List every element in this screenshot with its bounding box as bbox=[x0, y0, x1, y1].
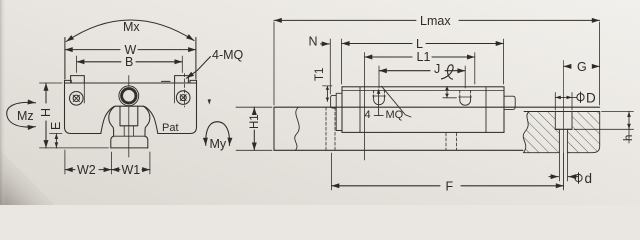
rail left end bbox=[273, 107, 275, 150]
moment arc Mx bbox=[66, 20, 194, 42]
rail groove contour left bbox=[109, 106, 115, 136]
dim W extension lines bbox=[65, 38, 196, 80]
dim F bbox=[332, 185, 564, 187]
rail hidden step line bbox=[114, 135, 145, 137]
short lip segment right of centre on top edge bbox=[162, 80, 171, 82]
svg-text:T1: T1 bbox=[314, 68, 326, 81]
section hatching right of hole bbox=[567, 112, 599, 153]
left hole counterbore wall line bbox=[83, 83, 85, 103]
svg-text:W2: W2 bbox=[77, 163, 96, 177]
dim W1 bbox=[111, 169, 149, 171]
dim phiD bbox=[555, 96, 572, 98]
grease hole centreline above ring bbox=[128, 76, 130, 87]
right hole counterbore wall line bbox=[174, 83, 176, 103]
depth tick bbox=[443, 97, 457, 99]
T1 tick bbox=[323, 85, 333, 87]
rail neck inner verticals bbox=[124, 126, 133, 136]
dim G bbox=[564, 65, 600, 67]
right view labels bbox=[249, 14, 635, 194]
hidden rail hole under block (dashed) bbox=[446, 133, 457, 150]
counterbore bottom line bbox=[555, 128, 572, 130]
dim L1 extension right bbox=[474, 53, 476, 85]
svg-text:h: h bbox=[623, 135, 635, 141]
svg-text:W1: W1 bbox=[122, 163, 141, 177]
svg-text:J: J bbox=[434, 62, 440, 76]
rail groove contour right bbox=[144, 106, 150, 136]
dim H1 bbox=[253, 107, 255, 150]
dim E bbox=[55, 134, 57, 148]
dim W2/W1 extension lines bbox=[65, 150, 150, 174]
svg-text:Mz: Mz bbox=[17, 109, 34, 123]
dim h bbox=[628, 112, 630, 130]
block top chamfer line bbox=[342, 89, 504, 91]
rail lower side right bbox=[145, 136, 148, 148]
moment arc Mz bbox=[7, 102, 36, 127]
svg-text:Mx: Mx bbox=[123, 20, 140, 34]
dim L1 extension left (long) bbox=[364, 53, 366, 161]
left view labels bbox=[17, 20, 244, 177]
thread cup right bbox=[460, 98, 471, 106]
section top edge line bbox=[524, 111, 599, 113]
svg-text:L1: L1 bbox=[417, 50, 431, 64]
screw hole right (circle with core) bbox=[176, 91, 190, 105]
diagonal leader line bbox=[382, 86, 412, 117]
dim Lmax extension left bbox=[273, 22, 275, 105]
section hatching left of hole bbox=[523, 112, 559, 153]
svg-text:L: L bbox=[416, 37, 423, 51]
dim L extension right bbox=[503, 39, 505, 84]
rail profile top shelf bbox=[115, 105, 143, 107]
svg-text:My: My bbox=[210, 137, 227, 151]
leader 4-MQ bbox=[186, 57, 210, 79]
rail neck rectangle bbox=[120, 106, 138, 126]
svg-text:G: G bbox=[577, 60, 587, 74]
dim J bbox=[379, 70, 465, 72]
thread cup left bbox=[374, 97, 385, 105]
dim F extension bbox=[332, 153, 564, 190]
dim N extension lines bbox=[330, 39, 341, 94]
H1 extension lines bbox=[236, 107, 272, 150]
dim Lmax extension right bbox=[599, 22, 601, 105]
dim W bbox=[65, 49, 196, 51]
dim L1 bbox=[365, 56, 475, 58]
thread hole left (dashed) bbox=[374, 90, 385, 98]
small solid arrow near block right edge bbox=[208, 99, 211, 104]
svg-text:N: N bbox=[309, 35, 318, 49]
dim h extension lines bbox=[574, 112, 634, 130]
left grease nipple tab bbox=[331, 95, 337, 108]
left end seal plate bbox=[336, 93, 342, 130]
svg-text:Pat: Pat bbox=[162, 122, 179, 134]
hole centreline bbox=[563, 61, 565, 190]
dim E extension (block bottom) bbox=[50, 133, 63, 135]
dim L bbox=[342, 43, 504, 45]
dim T1 bbox=[326, 86, 328, 101]
dim phid extension lines bbox=[559, 153, 567, 181]
rail top line bbox=[274, 106, 600, 108]
left screw-hole bracket tab bbox=[71, 76, 85, 83]
screw hole left (circle with cross) bbox=[70, 92, 84, 106]
svg-text:Lmax: Lmax bbox=[420, 14, 451, 28]
carriage block outline bbox=[65, 83, 197, 134]
dim phid arrows (outside) bbox=[549, 176, 558, 178]
dim H bbox=[45, 83, 47, 148]
svg-text:F: F bbox=[446, 180, 454, 194]
dim phiD extension lines bbox=[555, 93, 572, 111]
dim B bbox=[77, 61, 183, 63]
right hole dashed centreline bbox=[184, 74, 186, 108]
dim N arrow bbox=[321, 43, 330, 45]
svg-text:MQ: MQ bbox=[386, 109, 404, 121]
moment arc My bbox=[206, 122, 230, 146]
svg-text:4: 4 bbox=[365, 109, 371, 121]
svg-text:H: H bbox=[39, 108, 53, 117]
block lip contour right bbox=[143, 106, 157, 133]
end cap line left bbox=[359, 87, 361, 133]
dim W2 bbox=[65, 169, 112, 171]
rail bottom bbox=[111, 147, 148, 149]
scan shadow left edge bbox=[0, 0, 6, 205]
thread hole right (dashed) bbox=[460, 90, 471, 99]
hidden rail hole left of block (dashed) bbox=[326, 107, 335, 150]
rail break squiggle bbox=[295, 107, 299, 150]
rail bottom line bbox=[274, 149, 523, 151]
dim B extension lines bbox=[77, 56, 183, 73]
svg-text:B: B bbox=[125, 55, 133, 69]
block lip contour left bbox=[101, 106, 115, 133]
end cap line right bbox=[485, 87, 487, 133]
dim Lmax bbox=[274, 19, 600, 21]
dim H extension bottom (rail bottom, long) bbox=[40, 147, 109, 149]
dim J extension lines bbox=[379, 66, 465, 88]
rail lower side left bbox=[111, 136, 114, 148]
scan shadow bottom-left corner bbox=[0, 150, 55, 205]
svg-text:E: E bbox=[49, 122, 63, 130]
grease hole ring (centre) bbox=[122, 89, 136, 103]
depth dim for thread (script l) bbox=[446, 86, 448, 97]
block top-left corner lip bbox=[65, 80, 72, 83]
right screw-hole bracket tab bbox=[175, 76, 189, 83]
centre axis line bbox=[128, 107, 130, 158]
block top-right corner lip bbox=[190, 80, 197, 83]
right grease nipple tab bbox=[504, 96, 515, 109]
svg-text:H1: H1 bbox=[249, 114, 261, 129]
dim H extension top bbox=[40, 82, 63, 84]
label script l (thread depth) bbox=[441, 65, 453, 80]
carriage body side view bbox=[342, 87, 504, 133]
leader 4-MQ right view: vertical from hole with base tick bbox=[378, 93, 380, 116]
svg-text:D: D bbox=[586, 91, 596, 106]
svg-text:d: d bbox=[585, 171, 593, 186]
svg-text:4-MQ: 4-MQ bbox=[212, 48, 244, 62]
